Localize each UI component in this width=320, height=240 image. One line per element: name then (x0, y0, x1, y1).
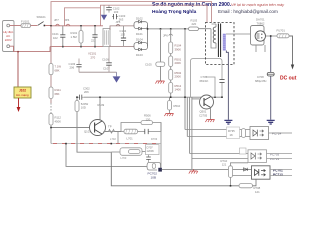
wire branch to J102 (17, 52, 19, 87)
resistor row A (242, 129, 246, 138)
wire chain bottom (50, 125, 52, 144)
wire dashed segment (50, 103, 52, 114)
wire row B bottom (192, 158, 248, 160)
svg-text:Đo mạng: Đo mạng (16, 93, 29, 97)
inductor L701 (124, 129, 138, 134)
SECTION: midcol (145, 29, 225, 170)
svg-text:PC713: PC713 (273, 173, 283, 177)
svg-text:D707: D707 (147, 146, 154, 150)
ground red Q501 (207, 119, 215, 121)
SECTION: leftcol (49, 26, 223, 152)
wire fb drop B (191, 97, 193, 169)
svg-text:200K: 200K (175, 75, 182, 79)
wire feedback long (162, 168, 252, 170)
wire loop L703 (111, 151, 120, 153)
wire x161 drop (160, 123, 162, 169)
svg-text:206: 206 (84, 90, 89, 94)
SECTION: bridge (110, 16, 206, 57)
wire primary top (206, 24, 217, 29)
wire Q501 emitter ground (210, 107, 212, 119)
wire branch x77 (77, 144, 111, 153)
svg-text:Hoàng Trọng Nghĩa: Hoàng Trọng Nghĩa (152, 9, 197, 15)
box D707 (146, 145, 160, 155)
svg-text:102: 102 (53, 36, 58, 40)
wire snub mid (207, 77, 216, 97)
ground blue small (116, 72, 118, 76)
red arrow below J102 (18, 98, 20, 108)
wire filter out top (110, 26, 134, 30)
wire emitter out (104, 131, 122, 133)
capacitor C103 top (112, 16, 118, 18)
wire startup drop (184, 29, 186, 130)
svg-text:L701: L701 (127, 136, 134, 140)
capacitor C711 in loop (152, 164, 155, 169)
capacitor loop1 (145, 129, 148, 134)
wire row C right (270, 169, 292, 175)
svg-text:R109: R109 (98, 103, 105, 107)
resistor R512 (170, 80, 172, 83)
wire branch x66 (66, 144, 147, 167)
wire discharge chain vertical (50, 26, 52, 103)
SECTION: acinput (3, 15, 52, 112)
wire inner top loop (101, 5, 208, 26)
svg-text:10D: 10D (81, 106, 86, 110)
wire base feed (51, 127, 90, 129)
wire row B top (190, 153, 248, 155)
diode row C (244, 168, 248, 171)
wire filter out bottom (110, 45, 134, 46)
svg-text:1K: 1K (230, 133, 234, 137)
svg-text:FU701: FU701 (277, 28, 286, 32)
wire C105 drop (160, 29, 162, 62)
svg-text:JP4: JP4 (65, 18, 70, 22)
resistor R110 (49, 64, 53, 75)
wire loop1 bottom (106, 131, 162, 133)
svg-text:C106: C106 (102, 57, 109, 61)
svg-text:Vẽ lại từ mạch nguồn trên máy: Vẽ lại từ mạch nguồn trên máy (231, 2, 285, 7)
wire fb drop A (189, 97, 191, 153)
line filter L101 (103, 29, 110, 47)
svg-text:JP6: JP6 (163, 33, 168, 37)
svg-text:FU101: FU101 (21, 20, 30, 24)
photo transistor PC702 (158, 168, 162, 172)
svg-text:68K: 68K (55, 92, 60, 96)
wire row A right (269, 132, 293, 134)
AC input connector box (3, 21, 15, 52)
node dots on rails (50, 25, 52, 27)
secondary winding purple (223, 34, 226, 51)
optocoupler box A (250, 127, 269, 140)
resistor R104 (169, 42, 173, 54)
svg-text:270: 270 (91, 55, 96, 59)
optocoupler box C (252, 166, 271, 179)
svg-text:390K: 390K (175, 47, 182, 51)
svg-text:220V: 220V (5, 38, 12, 42)
svg-text:121: 121 (222, 163, 227, 167)
svg-text:1.5M: 1.5M (71, 35, 78, 39)
svg-text:DC out: DC out (280, 76, 297, 82)
capacitor C709 (148, 155, 150, 162)
label box R735 (227, 127, 240, 139)
svg-text:TP: TP (108, 124, 112, 128)
svg-text:L702: L702 (110, 137, 116, 141)
wire C705 loop (191, 59, 223, 98)
transistor Q101 (90, 120, 106, 136)
wire outer top loop (51, 2, 212, 26)
wire row A bottom (187, 136, 250, 138)
resistor R708 on bottom bus (239, 184, 253, 188)
resistor R501 (170, 54, 172, 57)
wire C708 branch (270, 36, 272, 120)
svg-text:D101: D101 (136, 32, 143, 36)
wire switch to rail (45, 25, 51, 27)
svg-text:PC724: PC724 (272, 132, 282, 136)
SECTION: secondary (224, 35, 274, 124)
wire DC rail out (147, 25, 149, 46)
ground bars right (267, 120, 275, 124)
ground bars left (224, 120, 232, 124)
transistor Q501 (200, 95, 214, 109)
wire drive drop (186, 97, 188, 136)
wire box C bottom pin (233, 175, 252, 177)
SECTION: transformer (206, 18, 297, 82)
SECTION: lowermid (51, 114, 252, 186)
svg-text:200K: 200K (175, 61, 182, 65)
svg-text:220: 220 (192, 22, 197, 26)
svg-text:L703: L703 (121, 156, 127, 160)
core bar (218, 24, 220, 58)
svg-text:D703: D703 (151, 137, 158, 141)
wire fuse to switch (31, 25, 38, 27)
svg-text:68K: 68K (55, 68, 60, 72)
SECTION: header (152, 2, 285, 15)
resistor R112 (49, 114, 53, 126)
small box row B left (240, 148, 247, 154)
resistor R510 (169, 97, 171, 100)
ground red mid (193, 169, 195, 171)
wire row B right (267, 154, 293, 159)
wire secondary top out (226, 33, 251, 35)
svg-text:121: 121 (255, 190, 260, 193)
resistor R707 (129, 150, 141, 154)
ground red C105 (157, 80, 165, 82)
SECTION: bottomright (185, 127, 292, 194)
resistor R114 (76, 97, 78, 100)
wire row A top (185, 129, 250, 131)
wire DC out (289, 36, 293, 66)
capacitor C102 (108, 5, 110, 12)
svg-text:C105: C105 (145, 63, 152, 67)
wire AC neutral bottom (10, 46, 50, 51)
wire cap link (79, 71, 117, 73)
resistor R111 (49, 87, 53, 99)
wire bottom rail (50, 46, 103, 48)
primary winding (213, 27, 216, 43)
svg-text:C2705: C2705 (199, 114, 208, 118)
wire loop1 top with R506 (121, 123, 161, 132)
svg-text:D102: D102 (136, 16, 143, 20)
wire emitter drop (117, 132, 119, 144)
wire Q501 base (192, 98, 200, 100)
transformer T101 dashed box (206, 23, 235, 65)
wire pack bottom stub (256, 45, 265, 52)
resistor R502 (170, 67, 172, 70)
wire top rail (51, 25, 103, 27)
SECTION: filter (50, 2, 212, 48)
optocoupler box B (248, 150, 267, 163)
capacitor C708 electrolytic (267, 72, 274, 76)
svg-text:103: 103 (121, 33, 126, 37)
svg-text:SW101: SW101 (37, 15, 47, 19)
J102 yellow box (14, 87, 31, 98)
svg-text:450K: 450K (55, 119, 62, 123)
svg-text:681/1K: 681/1K (200, 79, 209, 83)
wire small loop (65, 8, 101, 26)
svg-text:12006: 12006 (147, 149, 155, 153)
wire loop to box (142, 151, 146, 153)
wire AC live to fuse (10, 25, 21, 27)
svg-text:10B: 10B (151, 176, 157, 180)
resistor row C vertical (229, 166, 233, 178)
wire secondary-ground rail (84, 96, 223, 98)
wire sec ground left (226, 51, 228, 120)
wire protect line dashed red (51, 143, 161, 145)
wire R114 down (76, 112, 78, 153)
svg-text:140K: 140K (175, 88, 182, 92)
ground Y-cap blue (103, 5, 105, 15)
svg-text:Email : hnghiabd@gmail.com: Email : hnghiabd@gmail.com (218, 9, 278, 14)
ground red R510 (166, 113, 174, 115)
svg-text:R510: R510 (174, 104, 181, 108)
svg-text:D104: D104 (136, 38, 143, 42)
svg-text:680µ/35v: 680µ/35v (255, 79, 267, 83)
wire bottom bus (111, 152, 239, 186)
wire loop3 (147, 162, 161, 170)
svg-text:Q101: Q101 (84, 129, 91, 133)
svg-text:T6862: T6862 (257, 21, 265, 25)
svg-text:JP5: JP5 (116, 20, 121, 24)
svg-text:206: 206 (70, 65, 75, 69)
svg-text:JP7: JP7 (54, 18, 59, 22)
svg-text:D103: D103 (136, 53, 143, 57)
